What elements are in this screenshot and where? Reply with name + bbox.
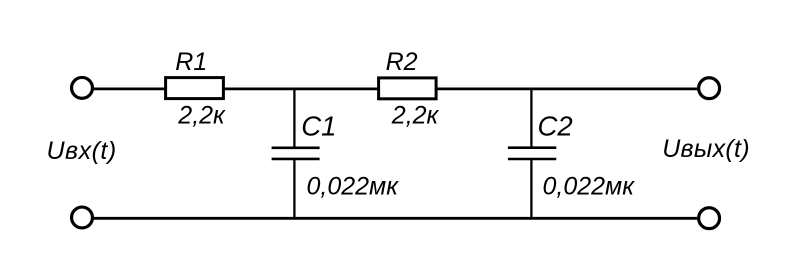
resistor R1 <box>166 78 224 99</box>
svg-text:0,022мк: 0,022мк <box>543 173 636 201</box>
resistor R2 <box>379 78 437 99</box>
capacitor C1 <box>272 89 320 218</box>
C2 top plate <box>508 146 556 149</box>
wire: C1 bottom plate to bottom rail <box>293 159 295 218</box>
wire: node A down to C1 top plate <box>293 89 295 148</box>
svg-text:2,2к: 2,2к <box>177 102 226 130</box>
svg-text:R2: R2 <box>386 48 418 76</box>
capacitor C2 <box>508 89 556 218</box>
wire: C2 bottom plate to bottom rail <box>530 159 532 218</box>
svg-text:Uвх(t): Uвх(t) <box>47 137 117 165</box>
C1 top plate <box>272 147 320 150</box>
svg-text:C2: C2 <box>538 111 573 142</box>
terminal: output top <box>699 78 720 99</box>
svg-text:Uвых(t): Uвых(t) <box>662 135 750 163</box>
terminal: output bottom <box>699 208 720 229</box>
svg-text:R1: R1 <box>175 48 207 76</box>
terminal: input bottom <box>72 207 93 228</box>
svg-text:2,2к: 2,2к <box>391 102 440 130</box>
wire: R1 to R2 through node A (C1 tap) <box>224 88 379 91</box>
wire: node B down to C2 top plate <box>530 89 532 148</box>
svg-text:0,022мк: 0,022мк <box>307 173 400 201</box>
wire: R2 to output top terminal (node B / C2 tap) <box>437 88 698 91</box>
C2 bottom plate <box>508 158 556 161</box>
svg-text:C1: C1 <box>301 111 336 142</box>
wire: input top terminal to R1 <box>94 88 166 91</box>
terminal: input top <box>72 77 93 98</box>
wire: bottom rail <box>94 217 698 220</box>
C1 bottom plate <box>272 158 320 161</box>
